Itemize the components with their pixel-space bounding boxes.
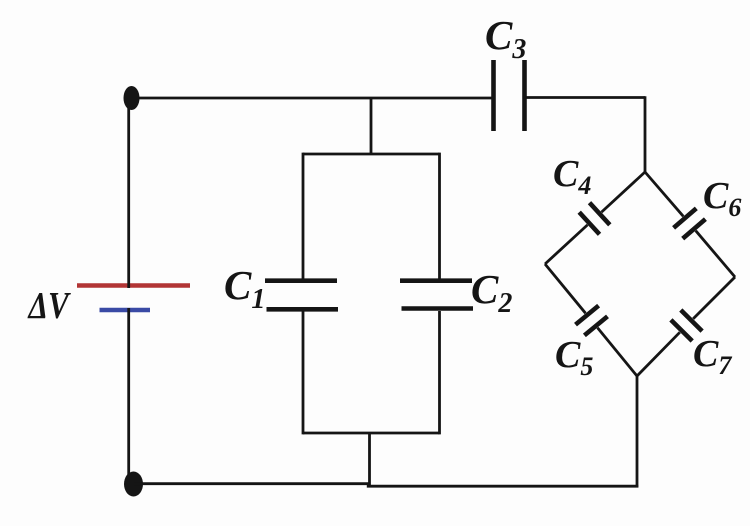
capacitor C5 bbox=[576, 306, 608, 336]
svg-text:C6: C6 bbox=[703, 175, 741, 222]
node junction top-left bbox=[124, 86, 140, 110]
svg-text:C1: C1 bbox=[224, 262, 265, 315]
capacitor C2 bbox=[400, 281, 473, 309]
wire C1 branch upper bbox=[302, 153, 305, 279]
wire bridge edge bottom-right (upper part) bbox=[693, 277, 735, 319]
label ΔV bbox=[27, 284, 72, 327]
wire top rail left (node to C3) bbox=[131, 97, 492, 100]
wire stub box bottom to bottom rail bbox=[368, 433, 371, 486]
capacitor C7 bbox=[671, 310, 702, 341]
wire C2 branch lower bbox=[438, 311, 441, 434]
wire parallel box bottom edge bbox=[303, 432, 440, 435]
wire bridge edge bottom-left (upper part) bbox=[545, 264, 586, 313]
capacitor C4 bbox=[579, 203, 610, 235]
svg-text:ΔV: ΔV bbox=[27, 284, 72, 327]
capacitor C1 bbox=[265, 281, 338, 310]
capacitor C3 bbox=[494, 60, 525, 131]
wire stub top rail to parallel box bbox=[370, 98, 373, 154]
wire C1 branch lower bbox=[302, 311, 305, 434]
svg-text:C3: C3 bbox=[485, 12, 526, 65]
wire parallel box top edge bbox=[303, 153, 440, 156]
node junction bottom-left bbox=[124, 472, 143, 497]
wire top rail right (C3 to right corner) bbox=[527, 96, 646, 99]
capacitor C6 bbox=[674, 208, 706, 238]
wire bridge edge top-left (lower part) bbox=[545, 225, 588, 264]
svg-text:C4: C4 bbox=[553, 153, 591, 200]
wire left vertical lower (battery - to bottom node) bbox=[127, 308, 130, 485]
svg-text:C5: C5 bbox=[555, 334, 593, 381]
wire bottom rail bbox=[134, 484, 638, 487]
wire bridge edge bottom-left (lower part) bbox=[598, 328, 638, 376]
wire left vertical upper (node to battery +) bbox=[127, 96, 130, 288]
svg-text:C7: C7 bbox=[693, 333, 732, 380]
wire C2 branch upper bbox=[438, 153, 441, 279]
wire bridge bottom vertical bbox=[636, 375, 639, 488]
svg-text:C2: C2 bbox=[471, 266, 512, 319]
wire bridge edge top-right (lower part) bbox=[696, 231, 735, 277]
wire bridge edge top-right (upper part) bbox=[645, 172, 683, 216]
wire bridge edge top-left (upper part) bbox=[602, 172, 646, 212]
battery ΔV positive plate (red) bbox=[77, 283, 190, 288]
wire bridge edge bottom-right (lower part) bbox=[637, 332, 680, 376]
wire right vertical (top rail down to bridge top node) bbox=[644, 96, 647, 173]
battery ΔV negative plate (blue) bbox=[100, 308, 151, 312]
